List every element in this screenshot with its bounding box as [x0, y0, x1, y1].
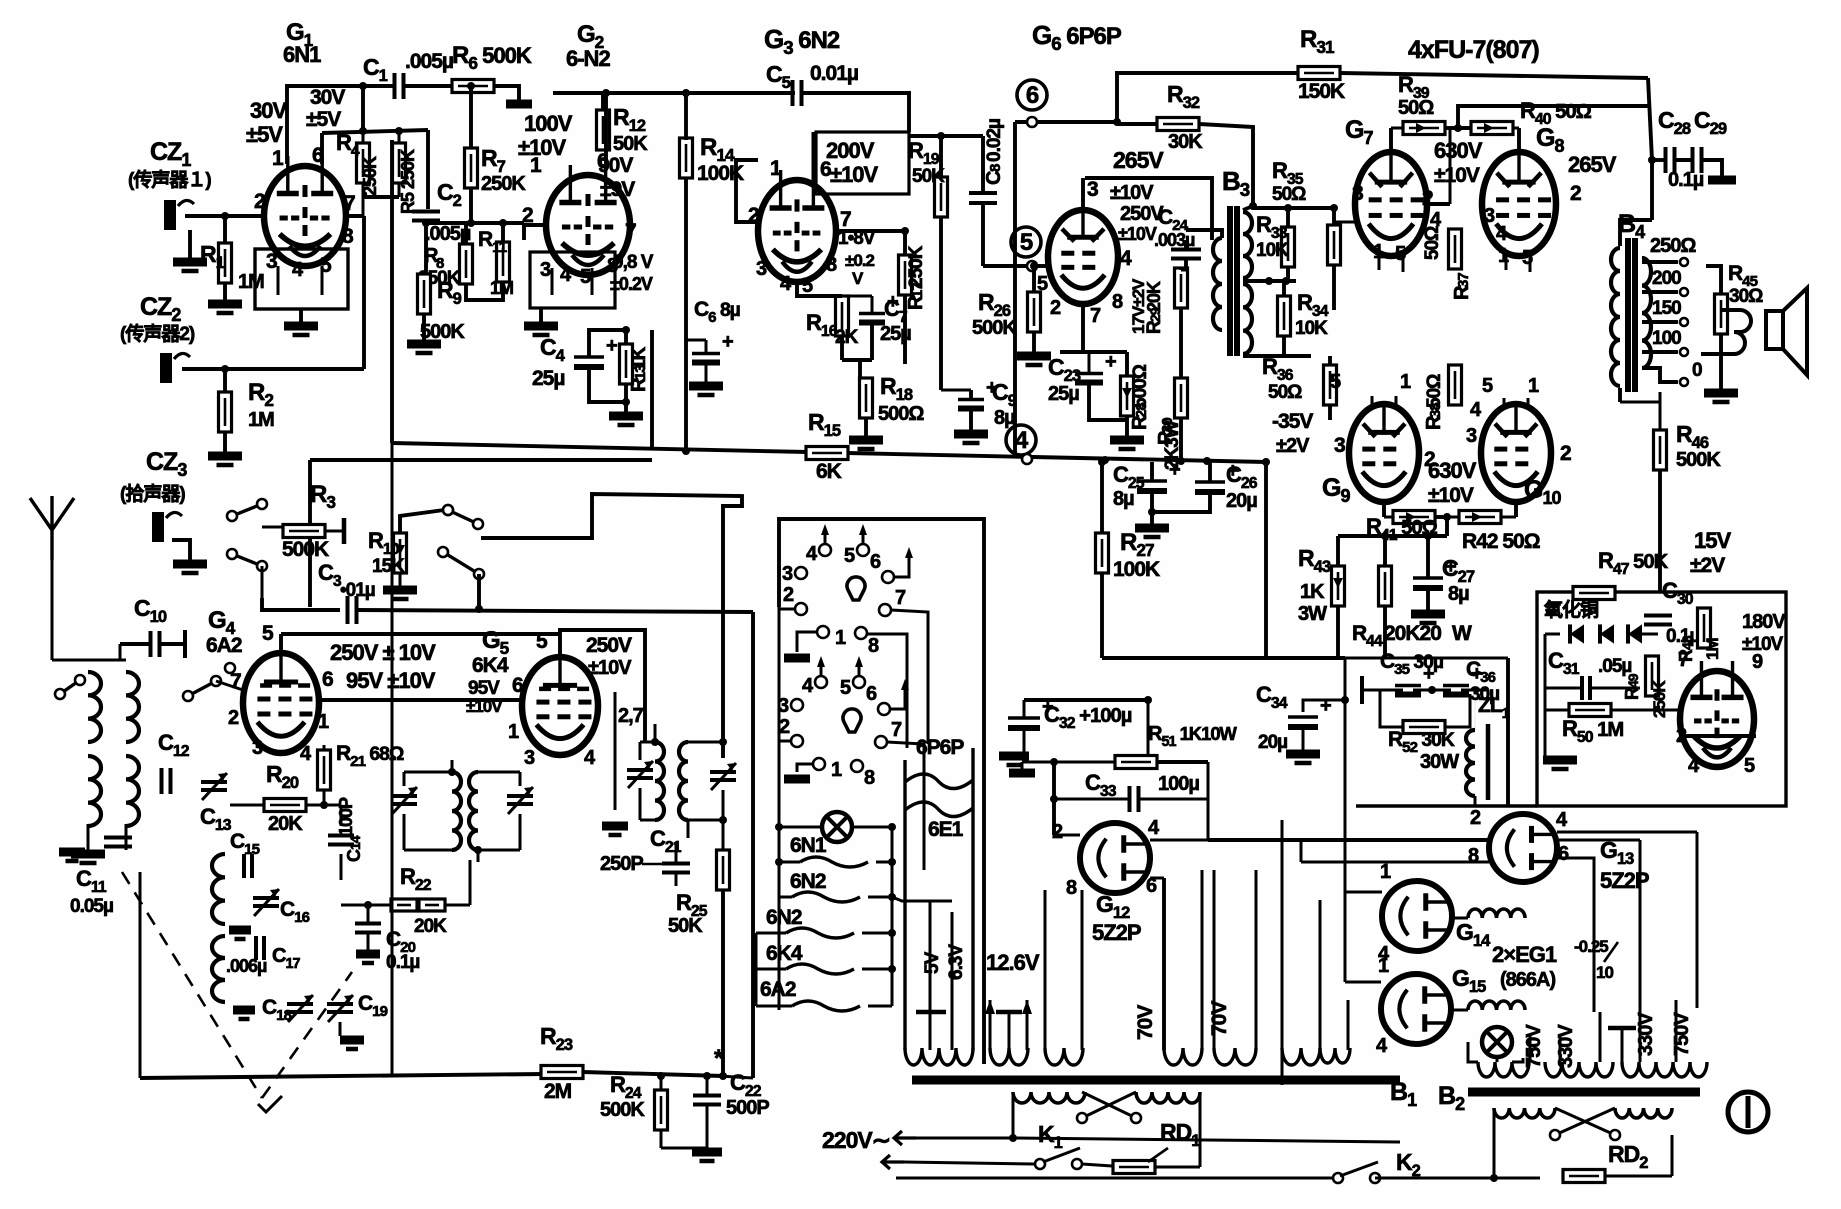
- wire G12 pin6: [1150, 877, 1164, 880]
- svg-text:5: 5: [1482, 375, 1493, 397]
- wire C5 to corner: [802, 93, 909, 132]
- resistor R8: [460, 244, 473, 284]
- resistor R51 1K10W: [1115, 756, 1157, 769]
- svg-text:50Ω: 50Ω: [1268, 382, 1302, 403]
- svg-text:2×EG1: 2×EG1: [1492, 942, 1557, 967]
- svg-text:8µ: 8µ: [1448, 583, 1469, 605]
- wire K2 to RD2: [1375, 1177, 1540, 1180]
- resistor R24 500K: [655, 1090, 668, 1130]
- svg-text:C: C: [983, 171, 1005, 185]
- svg-text:5Z2P: 5Z2P: [1600, 868, 1649, 893]
- wire R26: [1032, 266, 1036, 292]
- winding scallops 70V-2: [1214, 1048, 1256, 1065]
- svg-text:±5V: ±5V: [246, 122, 283, 147]
- svg-text:(传声器2): (传声器2): [120, 322, 195, 345]
- svg-text:265V: 265V: [1568, 152, 1617, 177]
- tube G13 5Z2P: [1489, 814, 1557, 882]
- svg-text:6: 6: [512, 674, 523, 697]
- svg-text:30W: 30W: [1420, 751, 1459, 773]
- wire antenna down: [51, 560, 54, 660]
- ground C27: [1411, 610, 1445, 619]
- B2 secondary legs: [1529, 1035, 1532, 1062]
- circled one mark: [1728, 1092, 1768, 1132]
- wire B2 cross: [1555, 1108, 1615, 1135]
- wire CZ1 to G1 grid: [185, 214, 264, 218]
- svg-text:6N1: 6N1: [283, 42, 321, 67]
- svg-text:250V: 250V: [586, 634, 632, 657]
- svg-text:6K: 6K: [816, 460, 842, 483]
- wire plate rail to C8: [909, 134, 983, 138]
- svg-text:30K: 30K: [1168, 131, 1203, 153]
- svg-text:3: 3: [1352, 182, 1363, 205]
- svg-text:+: +: [1169, 459, 1180, 481]
- ground R6: [506, 100, 532, 109]
- svg-text:1: 1: [508, 721, 519, 743]
- svg-text:1: 1: [1380, 861, 1391, 883]
- wire arm2 down: [477, 574, 481, 609]
- svg-text:.005µ: .005µ: [405, 50, 453, 73]
- pilot lamp: [822, 812, 852, 842]
- svg-text:2: 2: [1050, 297, 1061, 319]
- resistor R43 1K3W arrow: [1332, 566, 1345, 606]
- svg-text:+: +: [722, 331, 733, 353]
- wire B4 primary top: [1620, 220, 1652, 246]
- capacitor C17: [254, 936, 258, 960]
- wire R3 riser: [309, 460, 312, 525]
- svg-text:±10V: ±10V: [1110, 182, 1154, 204]
- socket2 keyway: [843, 709, 861, 732]
- svg-text:1: 1: [272, 147, 284, 170]
- heater 5V 6.3V lines: [929, 900, 932, 1050]
- wire bottom long y1078: [140, 1074, 545, 1078]
- ground C6: [689, 382, 723, 391]
- svg-text:100P: 100P: [336, 797, 356, 836]
- svg-text:5: 5: [262, 622, 274, 645]
- wire G4 plate rail: [279, 634, 283, 653]
- wire C9: [941, 389, 971, 392]
- wire G3 plate row: [836, 229, 905, 233]
- svg-text:500K: 500K: [600, 1099, 645, 1121]
- wire R10 top hook: [400, 510, 444, 533]
- svg-text:10K: 10K: [1295, 318, 1328, 339]
- wire cathode G3 to R16/C7: [797, 282, 842, 296]
- tube G5 6K4: [522, 657, 598, 755]
- wire C10: [120, 642, 150, 646]
- coil G15 anode: [1468, 1001, 1525, 1010]
- svg-text:49: 49: [1625, 673, 1641, 688]
- svg-text:5Z2P: 5Z2P: [1092, 920, 1141, 945]
- resistor R41 50 pot: [1393, 511, 1435, 524]
- wire C34: [1303, 700, 1345, 712]
- svg-text:25µ: 25µ: [1048, 383, 1079, 405]
- svg-text:48: 48: [1679, 635, 1695, 650]
- svg-text:±10V: ±10V: [1434, 164, 1480, 187]
- svg-text:200: 200: [1652, 268, 1681, 289]
- capacitor C11: [104, 836, 132, 840]
- wire C20: [367, 905, 370, 923]
- box magic eye: [1537, 592, 1786, 806]
- varcap C13: [201, 780, 227, 784]
- wire G14 G15 left stems: [1345, 891, 1382, 894]
- socket2 pin1 ground: [797, 764, 813, 772]
- resistor R21 68: [318, 750, 331, 790]
- wire C27: [1426, 536, 1430, 578]
- tube G7 FU-7: [1355, 152, 1427, 256]
- svg-text:3: 3: [1334, 434, 1345, 457]
- wire C32 top rail: [1024, 698, 1148, 702]
- wire R36: [1328, 356, 1332, 365]
- ground R18: [849, 436, 883, 445]
- wire R20 row: [230, 804, 264, 807]
- wire row y536: [1338, 534, 1447, 538]
- svg-text:70V: 70V: [1134, 1005, 1157, 1040]
- transformer B3 primary: [1213, 238, 1222, 330]
- wire x1117 up: [1117, 73, 1300, 122]
- tube G8 FU-7: [1482, 152, 1556, 256]
- wire C4 loop: [589, 330, 626, 357]
- svg-text:+: +: [606, 335, 617, 357]
- svg-text:6-N2: 6-N2: [566, 46, 610, 71]
- resistor R44 20K20W: [1379, 566, 1392, 606]
- capacitor C10: [149, 631, 153, 657]
- svg-text:1: 1: [318, 711, 329, 733]
- resistor R35 50: [1328, 225, 1341, 265]
- svg-text:0.01µ: 0.01µ: [810, 62, 858, 85]
- B1 primary coil: [1013, 1092, 1085, 1103]
- wire node6 rail: [1015, 120, 1117, 124]
- wire G13 pin8: [1301, 861, 1489, 864]
- chain wave 2: [792, 892, 860, 902]
- socket2 heater stems: [820, 660, 823, 676]
- winding 70V-2 legs: [1213, 870, 1216, 1050]
- svg-text:2: 2: [228, 707, 239, 729]
- resistor R2: [219, 392, 232, 432]
- wire box left lower: [778, 607, 781, 1010]
- wire G13 pin4 row: [1557, 831, 1697, 834]
- wire G13 pin2 row: [1262, 838, 1489, 842]
- resistor R50 1M: [1569, 704, 1611, 717]
- wire contact to G4 pin7: [216, 681, 243, 690]
- wire plate rail up: [1458, 106, 1648, 128]
- wire riser x392 bottom segment: [391, 443, 394, 1074]
- svg-text:±2V: ±2V: [1690, 554, 1725, 577]
- capacitor C12: [160, 768, 164, 794]
- wire RD2 right: [1605, 1175, 1672, 1178]
- resistor R14: [680, 138, 693, 178]
- wire C1 to R6: [404, 84, 452, 88]
- IF1 wires: [403, 772, 406, 786]
- svg-text:±10V: ±10V: [1428, 484, 1474, 507]
- ground C9: [954, 430, 988, 439]
- svg-text:3: 3: [1466, 425, 1477, 447]
- resistor R18 500: [860, 378, 873, 418]
- svg-text:R5 250K: R5 250K: [398, 149, 418, 214]
- resistor R12: [597, 110, 610, 150]
- svg-text:8: 8: [1066, 877, 1077, 899]
- capacitor C29: [1691, 147, 1695, 173]
- wire C3 right: [357, 610, 753, 612]
- resistor R4 250K: [357, 143, 370, 183]
- resistor R32 30K: [1157, 118, 1199, 131]
- svg-text:9: 9: [1752, 651, 1763, 673]
- wire B3 top to R35 row: [1253, 206, 1334, 210]
- svg-text:±10V: ±10V: [588, 657, 632, 679]
- svg-text:.006µ: .006µ: [226, 956, 267, 976]
- wire R43 bottom: [1336, 606, 1340, 658]
- svg-text:20K20: 20K20: [1384, 622, 1441, 645]
- wire B3 sec top: [1243, 206, 1253, 210]
- svg-text:15V: 15V: [1694, 528, 1731, 553]
- wire G2 cathode riser x652: [650, 330, 654, 447]
- svg-text:2: 2: [1470, 807, 1481, 829]
- wire R4R5 top tie: [322, 130, 428, 133]
- svg-text:265V: 265V: [1113, 147, 1164, 173]
- taps B4: [1642, 260, 1678, 264]
- wire C32: [1023, 700, 1026, 718]
- wire R25: [722, 820, 725, 850]
- svg-text:-35V: -35V: [1272, 410, 1313, 433]
- svg-text:8µ: 8µ: [1113, 488, 1134, 510]
- svg-text:+: +: [1105, 351, 1116, 373]
- resistor R16 2K: [836, 296, 849, 336]
- wire left of C28 down: [1648, 156, 1656, 164]
- ground R2: [208, 452, 242, 461]
- wire G6 cathode net: [1081, 304, 1085, 350]
- wire C24: [1184, 240, 1188, 249]
- svg-text:12.6V: 12.6V: [986, 950, 1040, 975]
- capacitor C35 electrolytic: [1395, 684, 1421, 687]
- tube G11 6E1 magic eye: [1680, 671, 1754, 767]
- svg-text:0,8 V: 0,8 V: [613, 252, 654, 273]
- wire pin7 from tube: [346, 214, 364, 218]
- ground C23R28: [1110, 436, 1144, 445]
- svg-text:5V: 5V: [922, 951, 943, 974]
- svg-text:2: 2: [1422, 187, 1433, 210]
- capacitor C24: [1171, 248, 1201, 252]
- socket2 pin7 wire: [887, 742, 924, 870]
- wire 2.7 pin down: [614, 692, 617, 810]
- wire B4 bottom riser: [1620, 401, 1660, 404]
- svg-text:250K: 250K: [1650, 680, 1669, 718]
- svg-text:G3 6N2: G3 6N2: [764, 24, 840, 58]
- tube G10 FU-7: [1481, 404, 1551, 502]
- svg-text:8: 8: [826, 254, 837, 276]
- wire C35 C36 row: [1362, 689, 1403, 692]
- svg-text:1K: 1K: [1300, 581, 1325, 603]
- svg-text:37: 37: [1455, 273, 1472, 288]
- ground osc coils: [229, 926, 251, 935]
- svg-text:6: 6: [866, 683, 877, 705]
- antenna: [50, 530, 53, 560]
- capacitor C30: [1644, 614, 1672, 618]
- svg-text:1: 1: [770, 157, 782, 180]
- wire -35V riser: [1264, 462, 1268, 658]
- wire mid row y658: [1102, 656, 1345, 660]
- svg-text:4xFU-7(807): 4xFU-7(807): [1408, 36, 1539, 64]
- transformer B3 core: [1227, 206, 1233, 356]
- svg-text:.005µ: .005µ: [425, 223, 471, 245]
- socket1 pin8 wire: [867, 634, 907, 748]
- svg-text:30Ω: 30Ω: [1729, 286, 1763, 307]
- wire R52 loop: [1380, 690, 1403, 727]
- wire B3 primary top: [1186, 230, 1222, 238]
- wire long left riser x140: [139, 872, 142, 1078]
- capacitor C25 electrolytic: [1137, 479, 1167, 482]
- svg-text:500K: 500K: [282, 538, 329, 561]
- svg-text:1: 1: [831, 759, 842, 781]
- svg-text:20K: 20K: [268, 813, 303, 835]
- svg-text:6K4: 6K4: [766, 942, 803, 965]
- ground C34: [1286, 750, 1320, 759]
- junction grid R1: [221, 212, 229, 220]
- svg-text:500Ω: 500Ω: [1130, 364, 1151, 408]
- svg-text:5: 5: [1330, 371, 1341, 393]
- IF1 varcap left: [391, 794, 417, 798]
- wire eye grid row: [1680, 734, 1756, 738]
- svg-text:17V±2V: 17V±2V: [1129, 278, 1148, 334]
- wire R32: [1117, 122, 1157, 126]
- svg-text:8: 8: [987, 164, 1004, 172]
- svg-text:7: 7: [1090, 305, 1101, 327]
- transformer B4 secondary: [1642, 258, 1651, 368]
- svg-text:7: 7: [891, 719, 902, 741]
- svg-text:1M: 1M: [248, 409, 274, 431]
- svg-text:3: 3: [1087, 178, 1098, 201]
- svg-text:0: 0: [1692, 360, 1702, 381]
- svg-text:6A2: 6A2: [760, 978, 796, 1001]
- svg-text:330V: 330V: [1555, 1024, 1577, 1068]
- svg-text:6.3V: 6.3V: [946, 944, 967, 980]
- pin box G1 cathode: [255, 249, 348, 309]
- wire B4 primary bottom: [1618, 388, 1622, 402]
- svg-text:5: 5: [1020, 229, 1033, 256]
- svg-text:3: 3: [266, 250, 277, 273]
- dashed gang line: [122, 872, 262, 1098]
- heater shape 6P6P: [905, 748, 973, 1050]
- svg-text:7: 7: [344, 192, 355, 215]
- capacitor C36 electrolytic: [1443, 684, 1469, 687]
- svg-text:14: 14: [347, 835, 363, 850]
- B1 primary coil2: [1136, 1092, 1200, 1103]
- svg-text:100: 100: [1652, 328, 1681, 349]
- wire R22 row: [341, 904, 391, 907]
- svg-text:6: 6: [1558, 843, 1569, 865]
- wire R19 up: [939, 136, 943, 177]
- svg-text:3W: 3W: [1298, 603, 1327, 625]
- wire C21: [675, 844, 678, 863]
- svg-text:8: 8: [864, 767, 875, 789]
- junction CZ2 R2: [221, 365, 229, 373]
- lamp box: [1468, 1042, 1478, 1062]
- transformer B1 core: [912, 1076, 1400, 1085]
- bar 330V: [1608, 1026, 1636, 1031]
- winding scallops B1 right: [1282, 1048, 1320, 1065]
- wire grid node down: [361, 86, 365, 130]
- svg-text:6: 6: [322, 668, 333, 691]
- socket2 pins: [815, 676, 827, 688]
- wire G13 pins right: [1557, 839, 1640, 842]
- resistor R10 15K: [394, 533, 407, 573]
- ground G1 box: [299, 309, 303, 322]
- check mark: [258, 1096, 282, 1112]
- wire G2 plate up: [604, 93, 608, 168]
- svg-text:180V: 180V: [1742, 611, 1786, 633]
- svg-text:750V: 750V: [1523, 1024, 1545, 1068]
- capacitor C20: [355, 922, 381, 926]
- svg-text:20µ: 20µ: [1226, 490, 1257, 512]
- jack CZ2: [160, 353, 172, 383]
- resistor R30 2K3W: [1175, 378, 1188, 418]
- resistor R1: [219, 243, 232, 283]
- svg-text:8: 8: [1112, 291, 1123, 313]
- wire C2 column: [426, 130, 430, 209]
- svg-text:0.02µ: 0.02µ: [984, 119, 1005, 162]
- svg-text:1M: 1M: [238, 271, 264, 293]
- wire R16C7 bottom: [842, 358, 872, 362]
- wire RD1 pointer: [1148, 1148, 1168, 1162]
- resistor R52 30K30W: [1403, 721, 1445, 734]
- resistor R9: [418, 274, 431, 314]
- resistor R33 10K: [1282, 227, 1295, 267]
- switch contacts tuner: [183, 691, 193, 701]
- wire diode row: [1545, 633, 1560, 636]
- pin box G2: [530, 252, 615, 308]
- box 200V: [816, 132, 909, 194]
- svg-text:氧化铜: 氧化铜: [1544, 598, 1599, 621]
- capacitor C6 electrolytic: [686, 339, 706, 342]
- ground R10: [399, 573, 402, 586]
- svg-text:250V ± 10V: 250V ± 10V: [330, 640, 436, 665]
- pin stems G7 G8: [1378, 256, 1381, 270]
- svg-text:±10V: ±10V: [518, 135, 567, 160]
- svg-text:0.1µ: 0.1µ: [1668, 169, 1704, 191]
- svg-text:R42 50Ω: R42 50Ω: [1462, 530, 1540, 553]
- svg-text:7: 7: [625, 220, 636, 243]
- resistor R20 20K: [264, 799, 306, 812]
- capacitor C14: [328, 834, 354, 838]
- wire C31: [1545, 687, 1582, 690]
- wire g7 grid row: [1334, 221, 1355, 224]
- wire R44 bottom rail: [1345, 657, 1508, 660]
- wire R17: [903, 231, 907, 255]
- svg-text:±2V: ±2V: [1276, 435, 1310, 457]
- chain wave 4: [786, 964, 854, 974]
- socket1 pin7 wire: [891, 610, 928, 744]
- varcap C19: [327, 1002, 353, 1006]
- svg-text:2: 2: [1052, 821, 1063, 843]
- node circled 6: [1017, 80, 1047, 110]
- svg-text:6N2: 6N2: [766, 906, 802, 929]
- tube G1 6N1: [264, 166, 346, 266]
- wire G12 pin4: [1150, 839, 1208, 842]
- svg-text:1: 1: [1400, 371, 1411, 393]
- capacitor C15: [242, 854, 246, 878]
- svg-text:3: 3: [1484, 205, 1495, 227]
- svg-text:±0.2: ±0.2: [845, 251, 875, 270]
- svg-text:6N1: 6N1: [790, 834, 827, 857]
- svg-text:150: 150: [1652, 298, 1681, 319]
- wire C22: [706, 1076, 709, 1095]
- resistor R34 10K: [1278, 296, 1291, 336]
- wire R43 top: [1336, 536, 1340, 566]
- svg-text:50Ω: 50Ω: [1272, 184, 1306, 205]
- capacitor C5: [791, 80, 795, 106]
- socket1 keyway: [847, 577, 865, 600]
- wire C10 left riser: [119, 644, 122, 660]
- svg-text:250K: 250K: [906, 245, 927, 288]
- winding scallops 70V-1: [1164, 1048, 1202, 1065]
- capacitor C28: [1664, 147, 1668, 173]
